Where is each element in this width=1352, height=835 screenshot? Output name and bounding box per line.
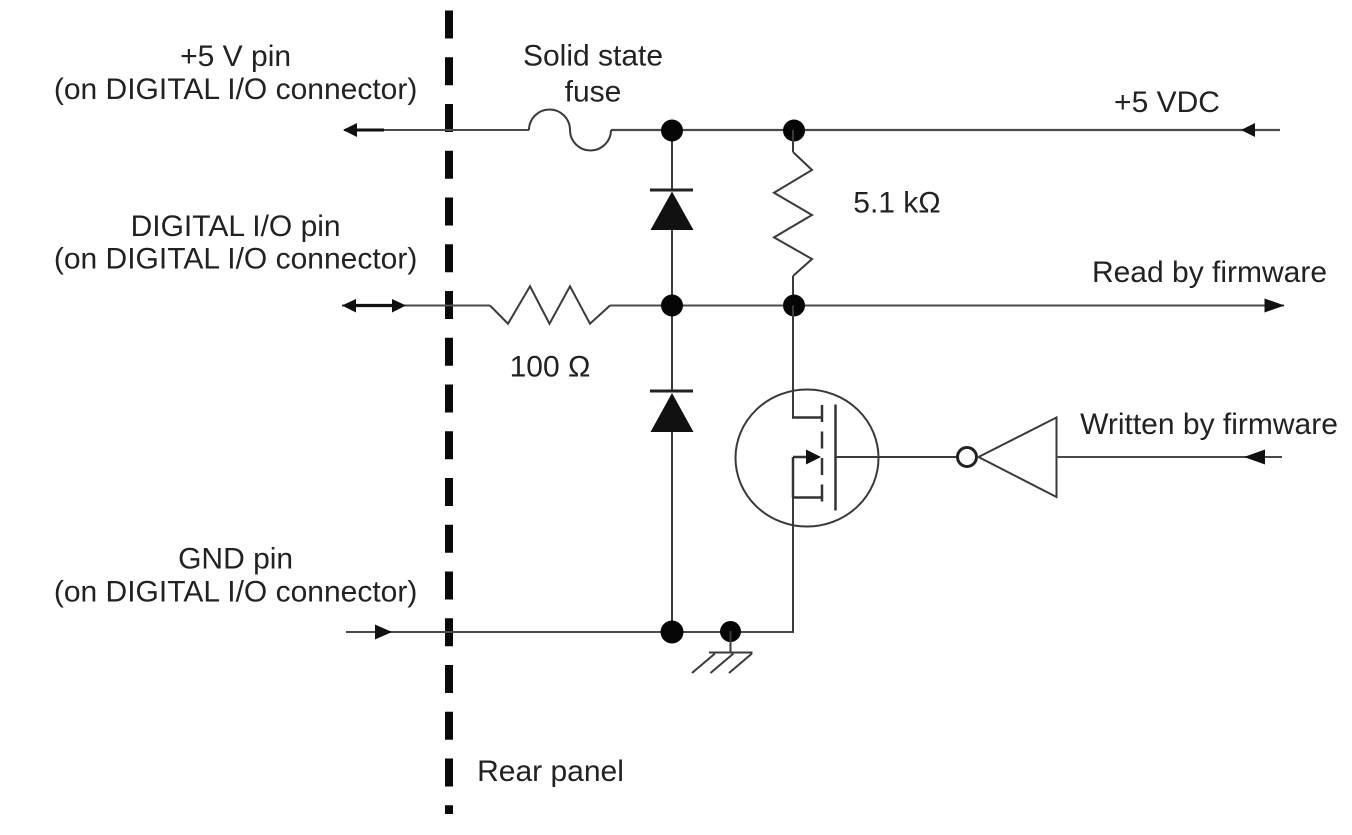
wire: inverter input from Written by firmware [1057, 456, 1283, 458]
svg-text:Written by firmware: Written by firmware [1080, 408, 1338, 441]
diode CR2 (clamps to GND, pointing up) [650, 390, 693, 393]
arrow: written-by-firmware inline left [1244, 450, 1265, 465]
wire: resistor 5.1k bottom lead [792, 276, 794, 306]
resistor R1 100 ohm [490, 286, 610, 323]
wire: resistor 5.1k top lead [792, 130, 794, 152]
svg-text:(on DIGITAL I/O connector): (on DIGITAL I/O connector) [54, 576, 417, 609]
svg-text:fuse: fuse [565, 76, 622, 109]
arrow: top-right inline from +5 VDC [1241, 123, 1255, 137]
svg-text:Read by firmware: Read by firmware [1092, 256, 1327, 289]
wire: source down to ground rail [792, 498, 794, 634]
body arrow [793, 456, 808, 459]
source stub [792, 496, 821, 499]
wire: diode branch vertical (top) [671, 130, 673, 190]
svg-text:Solid state: Solid state [523, 40, 663, 73]
rear panel boundary dashed line [445, 11, 453, 815]
channel dashed line [821, 405, 824, 510]
svg-text:100 Ω: 100 Ω [510, 351, 591, 384]
body-source tie vertical [792, 457, 795, 498]
fuse F1 solid state [529, 109, 611, 150]
inverter U1 bubble [958, 448, 977, 467]
wire: gate lead to inverter [836, 456, 958, 458]
svg-text:GND pin: GND pin [178, 543, 293, 576]
node: junction dot ground rail / diode branch [661, 621, 684, 644]
node: junction dot top rail / diode branch [661, 120, 683, 142]
wire: diode branch vertical (bottom) [671, 306, 673, 392]
svg-text:(on DIGITAL I/O connector): (on DIGITAL I/O connector) [54, 73, 417, 106]
gate electrode line [834, 405, 837, 511]
ground: chassis ground symbol [730, 631, 732, 653]
svg-text:+5 V pin: +5 V pin [180, 40, 291, 73]
svg-text:5.1 kΩ: 5.1 kΩ [853, 187, 940, 220]
diode CR1 (clamps to +5V, pointing up) [650, 189, 693, 192]
svg-text:Rear panel: Rear panel [477, 755, 624, 788]
resistor R2 5.1 kohm [774, 152, 812, 276]
svg-text:DIGITAL I/O pin: DIGITAL I/O pin [131, 210, 341, 243]
inverter U1 triangle [979, 418, 1057, 498]
svg-text:+5 VDC: +5 VDC [1114, 86, 1220, 119]
wire: GND bottom rail [346, 631, 793, 633]
arrow: middle-right to Read by firmware [1265, 299, 1285, 313]
svg-text:(on DIGITAL I/O connector): (on DIGITAL I/O connector) [54, 243, 417, 276]
arrow: bottom-left in from GND pin [375, 625, 392, 640]
node: junction dot top rail / resistor branch [783, 120, 805, 142]
node: junction dot ground rail / chassis ground [720, 621, 741, 642]
arrow: middle-left double-headed [352, 304, 396, 307]
arrow: top-left out to +5 V pin [345, 129, 384, 132]
wire: DIGITAL I/O middle rail [342, 305, 490, 307]
transistor Q1 n-channel mosfet [736, 390, 879, 527]
node: junction dot middle rail / mosfet drain [783, 295, 805, 317]
node: junction dot middle rail / diode branch [661, 295, 683, 317]
wire: +5V top rail [344, 129, 529, 131]
drain stub [792, 416, 821, 419]
wire: mosfet drain from middle rail [792, 306, 794, 418]
